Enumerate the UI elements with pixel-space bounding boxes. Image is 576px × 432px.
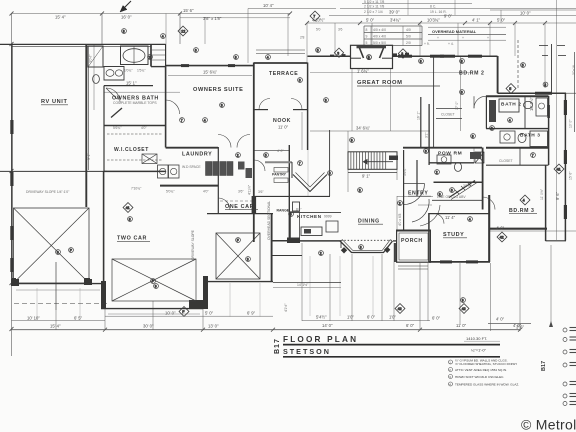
note bullet 1 <box>449 360 453 364</box>
svg-text:FLOOR PLAN: FLOOR PLAN <box>283 335 358 344</box>
svg-text:BD.RM 3: BD.RM 3 <box>509 208 535 214</box>
svg-text:8: 8 <box>123 30 125 34</box>
terrace steps <box>256 49 305 51</box>
wall bdrm2 west x433 <box>433 57 435 147</box>
shower owners <box>88 46 103 67</box>
rv door corner blobs <box>11 279 19 286</box>
svg-text:ATTIC VENT AREA REQ 1554 SQ.IN: ATTIC VENT AREA REQ 1554 SQ.IN. <box>455 368 507 372</box>
powrm dim x474 <box>473 147 475 163</box>
dimension top-right main y23 <box>307 22 576 24</box>
window study south 2 <box>466 260 478 263</box>
wall bath3 south y147 <box>486 147 549 149</box>
wall bath toilet y85 <box>104 85 153 87</box>
svg-text:3: 3 <box>544 83 546 87</box>
dimension under dining y320 <box>302 319 430 321</box>
powrm dark <box>470 152 481 159</box>
svg-text:4' 1": 4' 1" <box>472 17 481 22</box>
bath2 tub <box>499 99 519 112</box>
svg-text:2: 2 <box>237 154 239 158</box>
svg-text:DRIVEWAY SLOPE 1/4":1'0": DRIVEWAY SLOPE 1/4":1'0" <box>26 190 70 194</box>
svg-text:2: 2 <box>149 56 151 60</box>
extension x102 <box>101 14 103 45</box>
bench blobs <box>238 162 245 170</box>
nook south faint y150 <box>254 149 289 151</box>
overhead material lines <box>428 34 506 36</box>
dimension left vertical <box>11 14 13 357</box>
interior circles <box>122 29 127 34</box>
wall rv/owners divider <box>85 44 87 207</box>
wall garage divider pier <box>203 276 208 309</box>
driveway dashed <box>14 303 110 305</box>
wall terrace top <box>254 62 308 64</box>
svg-text:11' 4": 11' 4" <box>445 215 456 220</box>
wall rv unit south <box>0 170 107 172</box>
svg-text:10' 4": 10' 4" <box>263 3 274 8</box>
fridge small <box>293 202 300 211</box>
svg-text:10' 0": 10' 0" <box>165 310 176 315</box>
svg-text:HDWD SOFT WD MLD CSN ELEC.: HDWD SOFT WD MLD CSN ELEC. <box>455 375 504 379</box>
extension x180 <box>179 14 181 45</box>
svg-text:15' 1": 15' 1" <box>126 80 137 85</box>
thin top lines right <box>362 3 472 5</box>
porch box inner <box>399 233 428 260</box>
ext lines dropping bottom <box>55 262 57 330</box>
linen shelves bath <box>152 49 165 51</box>
bath3 tub <box>530 131 548 147</box>
driveway lines <box>16 289 100 291</box>
washer dryer <box>158 165 169 178</box>
svg-text:3'0½": 3'0½" <box>89 54 93 63</box>
wall hall west x420 <box>420 97 422 148</box>
svg-text:3'6: 3'6 <box>338 28 343 32</box>
svg-text:B17: B17 <box>541 361 547 371</box>
wall entry west x417 <box>416 160 418 196</box>
svg-text:4/0 x 4/0: 4/0 x 4/0 <box>373 35 386 39</box>
bottom ticks <box>103 328 107 332</box>
dimension top raised <box>248 8 336 10</box>
svg-text:5'4½": 5'4½" <box>316 315 327 320</box>
ticks from y23 down to walls <box>334 23 336 56</box>
svg-text:STUDY: STUDY <box>443 232 464 238</box>
svg-text:3'8" x 1'8": 3'8" x 1'8" <box>203 16 222 21</box>
window greatroom 3 <box>468 55 482 58</box>
svg-text:16' 1": 16' 1" <box>417 111 421 120</box>
window study south 1 <box>440 260 452 263</box>
arc kitchen hall <box>254 160 265 171</box>
svg-text:2: 2 <box>491 127 493 131</box>
porch steps <box>398 265 428 267</box>
note bullet 3 <box>449 375 453 379</box>
svg-text:5: 5 <box>366 41 368 45</box>
wall hall x482 <box>482 148 484 210</box>
svg-text:5' 0": 5' 0" <box>205 310 214 315</box>
svg-text:F: F <box>237 239 239 243</box>
step line garage-kitchen <box>272 255 303 257</box>
svg-text:15' 6¾": 15' 6¾" <box>203 70 217 75</box>
svg-text:PANTRY: PANTRY <box>272 172 287 176</box>
svg-text:12: 12 <box>181 30 185 34</box>
arc bdrm2 door <box>474 96 486 108</box>
svg-text:6' 0": 6' 0" <box>367 315 376 320</box>
ticks y23 <box>305 21 309 25</box>
dimension top A <box>12 13 291 15</box>
svg-text:ONE CAR: ONE CAR <box>225 204 254 210</box>
interior dim right x556 <box>556 0 558 240</box>
svg-text:5'6¾": 5'6¾" <box>113 126 122 130</box>
stair box <box>348 152 397 170</box>
toilet compartment door <box>106 88 120 102</box>
arc owners suite door2 <box>237 135 250 148</box>
understair closet diagonal <box>449 181 475 198</box>
dimension bottom secondary y320 <box>12 319 106 321</box>
greatroom interior dim x460 <box>460 57 462 131</box>
svg-text:34' 6¾": 34' 6¾" <box>356 125 370 130</box>
svg-text:3'1": 3'1" <box>425 132 429 138</box>
svg-text:ENTRY: ENTRY <box>408 190 428 196</box>
svg-text:8: 8 <box>461 60 463 64</box>
svg-text:6: 6 <box>425 150 427 154</box>
shower glass <box>88 46 103 67</box>
diamond symbols <box>123 11 564 316</box>
svg-text:6' 0": 6' 0" <box>406 323 415 328</box>
svg-text:6' 9": 6' 9" <box>247 310 256 315</box>
svg-text:5: 5 <box>265 154 267 158</box>
svg-text:3'0x16: 3'0x16 <box>572 65 576 75</box>
window y93 <box>535 92 552 95</box>
svg-text:9: 9 <box>462 299 464 303</box>
svg-text:14' 0": 14' 0" <box>322 323 333 328</box>
svg-text:OVERHEAD MATERIAL: OVERHEAD MATERIAL <box>432 29 477 34</box>
window suite north 2 <box>228 64 235 67</box>
svg-text:5: 5 <box>317 49 319 53</box>
svg-text:1' 6¾": 1' 6¾" <box>357 68 369 73</box>
study south y261 <box>429 261 490 263</box>
jamb rv front left <box>12 278 17 285</box>
svg-text:5' 0": 5' 0" <box>497 17 506 22</box>
wall powrm north y147 <box>403 147 482 149</box>
svg-text:9999: 9999 <box>324 215 332 219</box>
stair direction arrow <box>363 159 368 165</box>
svg-text:+: + <box>487 36 489 40</box>
svg-text:4'0 x 6'8: 4'0 x 6'8 <box>398 213 402 226</box>
bath2 vanity <box>536 98 548 116</box>
title rule 1 <box>283 344 500 346</box>
svg-text:10'3¾": 10'3¾" <box>427 17 440 22</box>
svg-text:4'0": 4'0" <box>141 126 147 130</box>
svg-text:15' 6": 15' 6" <box>183 8 194 13</box>
svg-text:3: 3 <box>221 104 223 108</box>
svg-text:CLOSET: CLOSET <box>499 159 513 163</box>
svg-text:© Metroli: © Metroli <box>521 417 576 432</box>
svg-text:7: 7 <box>313 15 315 19</box>
svg-text:NOOK: NOOK <box>273 118 291 124</box>
wall mud x253 vertical <box>253 63 255 243</box>
svg-text:5'0: 5'0 <box>316 28 321 32</box>
svg-text:3: 3 <box>247 258 249 262</box>
svg-text:5'0¾": 5'0¾" <box>166 190 175 194</box>
wall hall south y196 <box>254 195 330 197</box>
lockers mud <box>206 162 212 176</box>
svg-text:4: 4 <box>469 218 471 222</box>
wall east upper x497 <box>497 56 499 93</box>
linen X cabinet <box>475 152 484 163</box>
fireplace box <box>351 45 393 68</box>
arc suite entry <box>166 100 180 114</box>
sink bowl 2 <box>115 70 122 76</box>
wall onecar east <box>271 213 273 282</box>
wall bath east x548 <box>548 96 550 165</box>
svg-text:STETSON: STETSON <box>283 347 331 356</box>
window greatroom 2 <box>430 55 444 58</box>
ticks top-left down <box>247 9 249 64</box>
arc laundry <box>218 198 230 210</box>
wall east exterior x565 <box>564 93 566 241</box>
svg-text:3: 3 <box>325 99 327 103</box>
wall laundry north y147 <box>166 147 218 149</box>
wall powrm south y162 <box>429 162 474 164</box>
G_FIX <box>11 1 548 304</box>
svg-text:4' 0": 4' 0" <box>513 323 522 328</box>
wall ownersbath divider x151 <box>150 44 152 67</box>
svg-text:7: 7 <box>532 154 534 158</box>
stair dim vertical <box>347 131 349 192</box>
svg-text:4: 4 <box>509 119 511 123</box>
wall powrm south y182 <box>434 181 483 183</box>
svg-text:10' 10": 10' 10" <box>27 315 40 320</box>
wall pantry gray y162 <box>265 161 292 163</box>
svg-text:4: 4 <box>162 35 164 39</box>
svg-text:4: 4 <box>267 56 269 60</box>
sink bowl 1 <box>106 70 114 77</box>
wall closet north y125 <box>104 125 166 127</box>
wall suite north y65 <box>166 65 254 67</box>
interior dim greatroom y131 <box>310 130 430 132</box>
svg-text:13' 0": 13' 0" <box>208 324 219 329</box>
svg-text:41: 41 <box>126 206 130 210</box>
wall greatroom top east <box>393 55 498 57</box>
svg-text:OVERHEAD SECTIONAL: OVERHEAD SECTIONAL <box>267 201 271 240</box>
arc terrace door2 <box>291 99 302 110</box>
wall closet south y171 <box>104 170 166 172</box>
svg-text:3'4¾": 3'4¾" <box>390 17 401 22</box>
interior dim greatroom y72 <box>310 72 470 74</box>
G_TITLE <box>274 328 576 432</box>
wall kitchen x329 <box>329 130 331 196</box>
powrm sink <box>437 155 451 164</box>
kitchen range <box>326 221 338 232</box>
entry dim x397 <box>396 196 398 230</box>
svg-text:COMPLETE MARBLE TOPS: COMPLETE MARBLE TOPS <box>113 101 157 105</box>
wall dining east y240 <box>393 240 397 242</box>
svg-text:2: 2 <box>399 202 401 206</box>
svg-text:+ 4.: + 4. <box>448 42 454 46</box>
svg-text:4' 0": 4' 0" <box>277 149 284 153</box>
svg-text:4' 6": 4' 6" <box>496 225 505 230</box>
stair lower line <box>348 172 397 174</box>
tick x501 <box>500 10 502 23</box>
svg-text:6: 6 <box>329 172 331 176</box>
svg-text:7: 7 <box>181 119 183 123</box>
svg-text:5 1/2 x 11 7/8: 5 1/2 x 11 7/8 <box>364 0 384 4</box>
hall line y200 <box>432 199 482 201</box>
wall bdrm3 east x545 <box>545 165 547 241</box>
svg-text:B17: B17 <box>274 338 281 354</box>
left ticks <box>10 42 14 46</box>
bay face dotted <box>341 239 392 241</box>
svg-text:BATH 3: BATH 3 <box>520 133 541 139</box>
schedule table <box>364 25 422 27</box>
wall laundry south y185 <box>160 185 218 187</box>
wall kitchen south y240 <box>289 240 341 242</box>
svg-text:5/0: 5/0 <box>406 35 411 39</box>
svg-text:8: 8 <box>420 60 422 64</box>
svg-text:PORCH: PORCH <box>401 238 423 244</box>
svg-text:1410.30 FT.: 1410.30 FT. <box>466 336 487 341</box>
bay corner blobs <box>341 247 347 253</box>
north arrow <box>120 1 131 12</box>
window greatroom 1 <box>398 55 412 58</box>
wall closet south y165 <box>486 164 549 166</box>
svg-text:5: 5 <box>290 213 292 217</box>
fireplace top band <box>357 45 387 48</box>
svg-text:15' 4": 15' 4" <box>50 324 61 329</box>
south arrow x551 <box>549 321 553 327</box>
wall terrace south y109 <box>254 109 268 111</box>
svg-text:POW RM: POW RM <box>438 151 462 157</box>
svg-text:8'4": 8'4" <box>296 208 302 212</box>
svg-text:9: 9 <box>366 35 368 39</box>
porch west dark <box>394 243 396 262</box>
svg-text:TEMPERED GLASS WHERE IN WDW. G: TEMPERED GLASS WHERE IN WDW. GLAZ. <box>455 382 519 386</box>
wall left exterior <box>11 44 13 284</box>
svg-text:3'0¾": 3'0¾" <box>463 184 472 188</box>
dimension top second row <box>180 17 290 19</box>
stair dn block <box>389 156 398 161</box>
study north y213 <box>429 213 489 215</box>
interior dim left bath x94 <box>93 44 95 110</box>
wall compartment west x104 <box>103 86 105 172</box>
wall bdrm3 corner y240 <box>546 240 567 242</box>
window east 1 <box>564 100 567 115</box>
bath2 dark blob <box>489 100 496 122</box>
wall onecar front <box>203 281 273 283</box>
note bullet 2 <box>449 368 453 372</box>
kitchen north dark door <box>252 196 257 214</box>
wall twocar west dark pier <box>101 281 106 309</box>
svg-text:TERRACE: TERRACE <box>269 71 298 77</box>
svg-text:5' 0": 5' 0" <box>366 17 375 22</box>
svg-text:8: 8 <box>472 135 474 139</box>
fireplace wing stubs <box>330 55 334 57</box>
svg-text:8: 8 <box>368 56 370 60</box>
svg-text:14' 1½": 14' 1½" <box>297 283 309 287</box>
arc owners suite door1 <box>218 135 231 148</box>
svg-text:2/0: 2/0 <box>406 41 411 45</box>
wall twocar west <box>103 171 105 308</box>
svg-text:2: 2 <box>320 252 322 256</box>
svg-text:11' 0": 11' 0" <box>278 125 289 130</box>
svg-text:41: 41 <box>557 168 561 172</box>
svg-text:W.I.CLOSET: W.I.CLOSET <box>114 147 149 153</box>
svg-text:2 1/2 x 7 1/4: 2 1/2 x 7 1/4 <box>364 10 383 14</box>
kitchen sink <box>304 229 311 234</box>
window bath east <box>547 105 550 118</box>
svg-text:8: 8 <box>366 28 368 32</box>
svg-text:RANGE: RANGE <box>277 209 290 213</box>
wall ownersbath y66 <box>151 66 166 68</box>
svg-text:BATH 2: BATH 2 <box>501 102 522 108</box>
toilet owners <box>93 75 100 84</box>
svg-text:8: 8 <box>129 218 131 222</box>
svg-text:6' 0": 6' 0" <box>432 315 441 320</box>
window suite north 1 <box>181 64 189 67</box>
svg-text:+: + <box>437 36 439 40</box>
tub divider <box>133 46 135 65</box>
wall top main <box>0 43 166 45</box>
interior dim bath y92 <box>104 91 180 93</box>
svg-text:DRIVEWAY SLOPE: DRIVEWAY SLOPE <box>191 229 195 260</box>
jamb rv front right <box>84 278 90 285</box>
svg-text:39' 0": 39' 0" <box>389 10 400 15</box>
interior dim study y231 <box>490 230 576 232</box>
arc bdrm3 <box>483 197 495 210</box>
tub owners <box>121 46 149 65</box>
svg-text:OWNERS SUITE: OWNERS SUITE <box>193 87 243 93</box>
svg-text:CLOSET: CLOSET <box>441 113 455 117</box>
svg-text:+ 9.: + 9. <box>424 42 430 46</box>
svg-text:5/0 x 5/0: 5/0 x 5/0 <box>373 41 386 45</box>
wall rv garage front <box>12 283 102 285</box>
svg-text:4'0": 4'0" <box>203 190 209 194</box>
svg-text:4'11½": 4'11½" <box>248 184 252 195</box>
bath3 vanity <box>500 131 515 143</box>
arc entry front <box>404 184 425 205</box>
svg-text:5: 5 <box>522 64 524 68</box>
nook dim x302 <box>301 112 303 150</box>
svg-text:15' 6": 15' 6" <box>569 171 573 180</box>
svg-text:10' 0": 10' 0" <box>569 119 573 128</box>
svg-text:2'8: 2'8 <box>300 36 305 40</box>
wall pantry east x292 <box>291 162 293 178</box>
kitchen counter west <box>291 212 300 238</box>
wall kitchen counter top y212 <box>289 211 341 213</box>
svg-text:11' 0½": 11' 0½" <box>540 188 544 200</box>
deck rail x551 <box>551 44 553 93</box>
wall dark block kitchen corner <box>287 238 300 244</box>
kitchen island <box>301 227 322 236</box>
tick A1 <box>10 12 14 16</box>
svg-text:7: 7 <box>299 162 301 166</box>
svg-text:LAUNDRY: LAUNDRY <box>182 152 212 158</box>
svg-text:9: 9 <box>351 139 353 143</box>
note bullet 4 <box>449 382 453 386</box>
G_TEXT <box>26 0 576 329</box>
wall suite west upper x165 <box>165 44 167 67</box>
hall dashed y200 <box>220 200 252 202</box>
svg-text:6: 6 <box>299 79 301 83</box>
svg-text:15' 4": 15' 4" <box>55 14 66 19</box>
pantry shelves <box>274 168 288 173</box>
svg-text:4'1½": 4'1½" <box>284 303 288 312</box>
svg-text:4: 4 <box>523 199 525 203</box>
right notes column <box>541 328 576 406</box>
wall bdrm3 south y228 <box>489 228 547 230</box>
faint ext verticals bottom <box>37 256 373 320</box>
jamb twocar right <box>189 300 203 308</box>
title rule 2 <box>283 356 500 358</box>
svg-text:KITCHEN: KITCHEN <box>297 214 322 219</box>
svg-text:9' 6": 9' 6" <box>555 191 560 200</box>
